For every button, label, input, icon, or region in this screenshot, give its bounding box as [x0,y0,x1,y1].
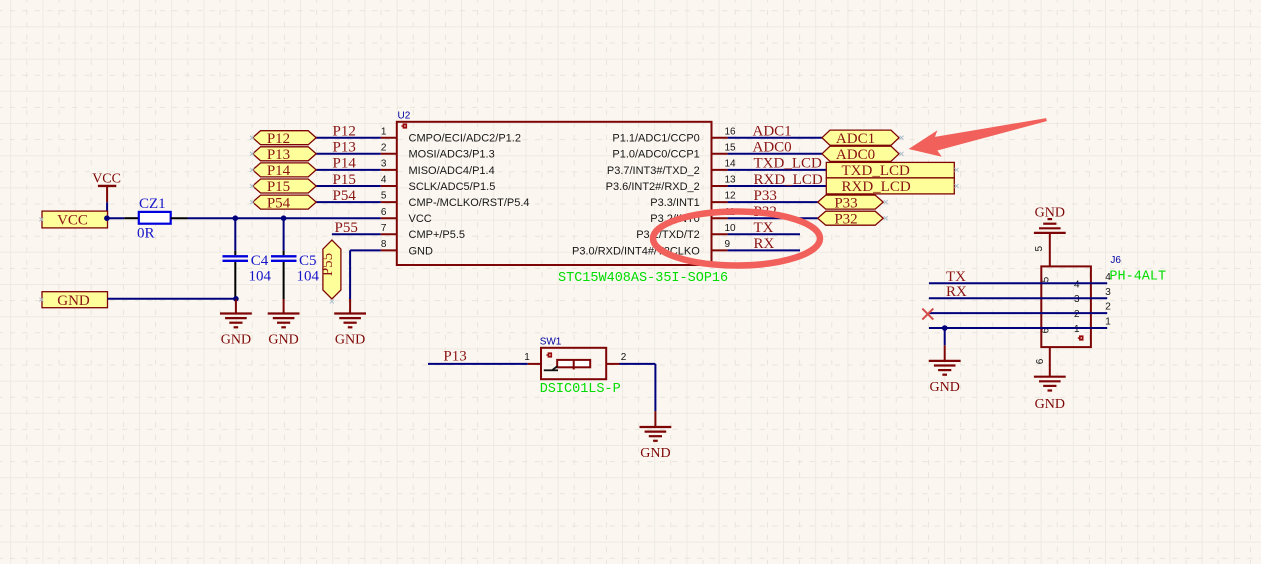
unconnected marker at P14 left tip [250,168,254,172]
port GND box [42,292,108,308]
svg-text:5: 5 [381,191,387,202]
port TXD_LCD [826,162,954,178]
svg-text:CMP-/MCLKO/RST/P5.4: CMP-/MCLKO/RST/P5.4 [409,197,530,209]
wire pin 8 to ground [350,249,381,251]
wire J6 pin 1 [929,327,1107,329]
wire pin 12 to port P33 [728,201,818,203]
port RXD_LCD [826,178,954,194]
no-ERC marker (red cross) [922,309,933,320]
svg-text:SCLK/ADC5/P1.5: SCLK/ADC5/P1.5 [409,181,496,193]
svg-text:1: 1 [524,352,530,363]
wire J6 pin 4 [929,282,1107,284]
U2 pin 11 stub [712,217,728,219]
svg-text:CMP+/P5.5: CMP+/P5.5 [409,229,466,241]
svg-text:P3.1/TXD/T2: P3.1/TXD/T2 [636,229,700,241]
wire pin 11 to port P32 [728,217,818,219]
SW1 pin 2 stub [606,363,619,365]
node junction GND wire [233,296,239,302]
U2 pin 16 stub [712,137,728,139]
svg-text:2: 2 [381,142,387,153]
resistor CZ1 lead right [171,217,188,219]
U2 pin 7 stub [381,233,397,235]
node junction at VCC box [104,215,110,221]
connector J6 body [1041,266,1091,347]
U2 pin 6 stub [381,217,397,219]
unconnected marker at P13 left tip [250,152,254,156]
U2 pin 13 stub [712,185,728,187]
wire VCC symbol to junction [106,202,108,218]
svg-text:GND: GND [57,293,90,309]
wire SW1 pin 2 to ground [620,363,656,365]
svg-text:GND: GND [640,446,670,461]
svg-text:104: 104 [249,268,272,284]
wire net P15 to pin 4 [316,185,381,187]
svg-text:P12: P12 [333,124,356,140]
port P33 [818,195,884,209]
svg-text:P1.1/ADC1/CCP0: P1.1/ADC1/CCP0 [612,133,699,145]
wire junction to C5 [283,218,285,250]
U2 pin 2 stub [381,153,397,155]
capacitor C5 leads [283,251,285,256]
wire junction to C4 [234,218,236,250]
switch SW1 body [541,348,606,379]
svg-text:3: 3 [1074,294,1080,305]
svg-text:MOSI/ADC3/P1.3: MOSI/ADC3/P1.3 [409,149,495,161]
svg-text:DSIC01LS-P: DSIC01LS-P [540,382,621,397]
port P15 [253,179,317,193]
svg-text:P12: P12 [267,131,290,147]
unconnected marker at P33 right tip [884,200,888,204]
wire C4 to ground [235,299,237,314]
port P12 [253,131,317,145]
port VCC box [42,211,108,228]
U2 pin 10 stub [712,233,728,235]
capacitor C4 [223,256,249,261]
svg-text:P1.0/ADC0/CCP1: P1.0/ADC0/CCP1 [612,149,699,161]
U2 pin 4 stub [381,185,397,187]
svg-text:ADC0: ADC0 [836,147,875,163]
svg-text:RXD_LCD: RXD_LCD [842,179,911,195]
svg-text:P13: P13 [333,140,356,156]
wire net P13 to pin 2 [316,153,381,155]
svg-text:14: 14 [725,159,737,170]
svg-text:P3.7/INT3#/TXD_2: P3.7/INT3#/TXD_2 [607,165,700,177]
svg-text:U2: U2 [398,111,411,122]
part marker SW1 [546,352,552,357]
wire P55 to pin 7 [332,233,381,235]
svg-text:2: 2 [621,352,627,363]
wire pin 14 to port TXD_LCD [728,169,827,171]
wire pin 16 to port ADC1 [728,137,822,139]
ground J6 bottom [1034,377,1066,391]
svg-text:P14: P14 [333,156,357,172]
ground under C5 [268,314,300,328]
svg-text:RX: RX [754,236,775,252]
svg-text:CMPO/ECI/ADC2/P1.2: CMPO/ECI/ADC2/P1.2 [409,133,521,145]
wire net RX at pin 9 [728,249,800,251]
svg-text:4: 4 [1074,279,1080,290]
svg-text:13: 13 [725,175,737,186]
wire VCC to CZ1 [107,217,124,219]
part marker J6 [1078,335,1084,340]
unconnected marker at P12 left tip [250,136,254,140]
port P14 [253,163,317,177]
IC U2 STC15W408AS body [397,122,712,265]
svg-text:P54: P54 [267,195,291,211]
svg-text:STC15W408AS-35I-SOP16: STC15W408AS-35I-SOP16 [558,271,728,286]
port ADC0 [822,146,899,161]
U2 pin 12 stub [712,201,728,203]
resistor CZ1 lead left [124,217,139,219]
svg-text:P13: P13 [443,348,466,364]
capacitor C5 [271,256,297,261]
ground under SW1 [640,427,672,441]
wire J6 pin 3 [929,297,1107,299]
J6 pin 6 lead [1049,347,1051,376]
wire CZ1 to U2 pin 6 [188,217,381,219]
wire net P12 to pin 1 [316,137,381,139]
resistor CZ1 [139,212,171,224]
svg-text:P3.3/INT1: P3.3/INT1 [650,197,700,209]
svg-text:ADC1: ADC1 [836,131,875,147]
svg-text:1: 1 [1105,317,1111,328]
svg-text:VCC: VCC [409,213,432,225]
U2 pin 9 stub [712,249,728,251]
svg-text:GND: GND [409,245,434,257]
svg-text:P3.6/INT2#/RXD_2: P3.6/INT2#/RXD_2 [606,181,700,193]
svg-text:7: 7 [381,223,387,234]
svg-text:P55: P55 [335,220,358,236]
svg-text:MISO/ADC4/P1.4: MISO/ADC4/P1.4 [409,165,495,177]
unconnected marker at ADC0 right tip [900,152,904,156]
svg-text:P14: P14 [267,163,291,179]
svg-text:10: 10 [725,223,737,234]
node junction C4 [233,215,239,221]
wire net TX at pin 10 [728,233,800,235]
svg-text:16: 16 [725,126,737,137]
J6 pin 5 lead [1049,233,1051,267]
ground under C4 [220,314,252,328]
svg-text:P32: P32 [834,211,857,227]
ground J6 left [929,361,961,375]
svg-text:P13: P13 [267,147,290,163]
port P54 [253,195,317,209]
svg-text:RXD_LCD: RXD_LCD [754,172,823,188]
svg-text:0R: 0R [137,226,155,242]
svg-text:J6: J6 [1110,255,1121,266]
U2 pin 5 stub [381,201,397,203]
port P55 (vertical) [323,240,341,299]
svg-text:9: 9 [725,239,731,250]
U2 pin 8 stub [381,249,397,251]
U2 pin 15 stub [712,153,728,155]
svg-text:15: 15 [725,142,737,153]
U2 pin 1 stub [381,137,397,139]
wire pin 13 to port RXD_LCD [728,185,827,187]
svg-text:TXD_LCD: TXD_LCD [842,163,910,179]
U2 pin 14 stub [712,169,728,171]
svg-text:2: 2 [1105,302,1111,313]
ground pin 8 [334,314,366,328]
ground J6 top (inverted) [1034,219,1066,233]
svg-text:12: 12 [725,191,737,202]
svg-text:P15: P15 [267,179,290,195]
svg-text:GND: GND [268,333,298,348]
svg-text:P15: P15 [333,172,356,188]
capacitor C4 leads [234,251,236,256]
port P13 [253,147,317,161]
svg-text:GND: GND [335,333,365,348]
wire J6 pin 2 [929,312,1107,314]
switch SW1 slider graphic [557,360,590,367]
svg-text:P33: P33 [834,195,857,211]
svg-text:P54: P54 [333,188,357,204]
svg-text:2: 2 [1074,309,1080,320]
svg-text:1: 1 [1074,324,1080,335]
svg-text:C4: C4 [251,253,269,269]
svg-text:4: 4 [381,175,387,186]
wire GND box to junction [108,298,236,300]
unconnected marker at ADC1 right tip [900,136,904,140]
SW1 pin 1 stub [528,363,541,365]
annotation red arrow pointing to ADC ports [909,118,1047,157]
svg-text:TX: TX [754,220,774,236]
unconnected marker at VCC box left [39,218,43,222]
unconnected marker at RXD_LCD right edge [955,184,959,188]
unconnected marker at GND box left [39,298,43,302]
svg-text:6: 6 [381,207,387,218]
svg-text:3: 3 [381,159,387,170]
wire P13 to SW1 pin 1 [428,363,528,365]
svg-text:4: 4 [1105,272,1111,283]
svg-text:6: 6 [1035,358,1046,364]
svg-text:ADC1: ADC1 [753,124,792,140]
svg-text:GND: GND [1035,205,1065,220]
unconnected marker at P54 left tip [250,200,254,204]
unconnected marker at TXD_LCD right edge [955,168,959,172]
svg-text:VCC: VCC [92,172,121,187]
svg-text:VCC: VCC [57,212,88,228]
annotation red ellipse around TX/RX pins [653,212,820,266]
svg-text:5: 5 [1034,245,1045,251]
svg-text:PH-4ALT: PH-4ALT [1109,269,1166,284]
wire J6 pin1 junction to ground [944,328,946,345]
unconnected marker at P15 left tip [250,184,254,188]
svg-text:ADC0: ADC0 [753,140,792,156]
unconnected marker at P55 bottom tip [330,300,334,304]
svg-text:3: 3 [1105,287,1111,298]
svg-text:8: 8 [381,239,387,250]
svg-text:TXD_LCD: TXD_LCD [754,156,822,172]
svg-text:P55: P55 [320,253,336,276]
U2 pin 3 stub [381,169,397,171]
wire net P14 to pin 3 [316,169,381,171]
node junction C5 [281,215,287,221]
part marker U2 [401,123,407,128]
wire C5 to ground [283,299,285,313]
svg-text:C5: C5 [299,253,317,269]
wire pin 15 to port ADC0 [728,153,822,155]
port ADC1 [822,130,899,145]
svg-text:GND: GND [930,380,960,395]
svg-text:P33: P33 [754,188,777,204]
svg-text:SW1: SW1 [540,337,562,348]
unconnected marker at P32 right tip [884,216,888,220]
switch SW1 arrow graphic [544,366,558,370]
port P32 [818,211,884,225]
svg-text:GND: GND [221,333,251,348]
node junction J6 pin 1 wire [942,325,948,331]
svg-text:CZ1: CZ1 [139,196,166,212]
svg-text:GND: GND [1035,397,1065,412]
svg-text:104: 104 [297,268,320,284]
wire net P54 to pin 5 [316,201,381,203]
svg-text:1: 1 [381,126,387,137]
